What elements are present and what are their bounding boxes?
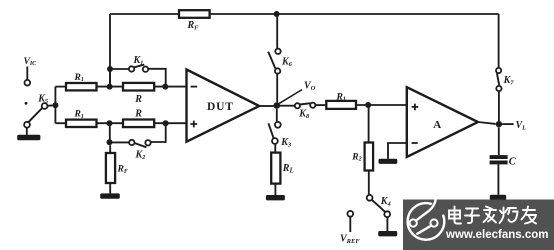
terminal VIC (open circle) bbox=[25, 80, 31, 86]
switch K7 bbox=[496, 68, 514, 91]
node Vo (DUT output) bbox=[274, 102, 281, 109]
wire bottom row between R1 and R bbox=[97, 122, 124, 124]
switch K4 bbox=[367, 195, 392, 217]
switch K1 bbox=[129, 55, 148, 72]
wire left vertical from top rail down to inverting input row bbox=[109, 14, 111, 87]
node top row / K1 branch bbox=[107, 84, 113, 90]
resistor Ri bbox=[326, 92, 356, 109]
wire RL to ground bbox=[274, 184, 276, 195]
wire A inverting input to ground bbox=[388, 143, 407, 159]
svg-text:C: C bbox=[509, 156, 517, 167]
terminal VREF bbox=[340, 211, 360, 245]
resistor RF (top feedback) bbox=[179, 10, 210, 31]
watermark chinese title (stylized strokes) bbox=[449, 207, 536, 224]
wire K3 to RL bbox=[274, 144, 276, 153]
wire DUT output bbox=[259, 105, 273, 107]
switch K6 bbox=[268, 49, 292, 74]
switch K2 bbox=[129, 140, 151, 161]
zi bbox=[465, 209, 479, 224]
wire K2 branch left horizontal bbox=[110, 141, 129, 143]
wire top row: bus to R1 bbox=[55, 86, 66, 88]
wire node VL down to capacitor bbox=[498, 127, 500, 155]
ground (below K4) bbox=[378, 231, 397, 236]
svg-text:www.elecfans.com: www.elecfans.com bbox=[445, 229, 548, 241]
wire A output bbox=[478, 122, 496, 124]
label VIC bbox=[24, 57, 38, 67]
switch K3 stub bbox=[276, 109, 278, 122]
svg-text:A: A bbox=[433, 119, 441, 131]
node junction top rail to K6 bbox=[274, 11, 280, 17]
you bbox=[522, 207, 537, 224]
wire K4 to ground bbox=[386, 217, 388, 231]
wire capacitor to ground bbox=[497, 164, 499, 194]
node bottom row / K2 branch bbox=[107, 120, 113, 126]
fa bbox=[484, 207, 497, 223]
node speck left of K5 bbox=[25, 102, 28, 105]
wire R2 branch vertical bbox=[368, 105, 370, 143]
wire top row to DUT inverting input bbox=[154, 86, 186, 88]
wire K2 branch right bbox=[151, 123, 166, 142]
ground (below RL) bbox=[266, 195, 285, 200]
wire RF to ground bbox=[109, 183, 111, 193]
ground (below C) bbox=[490, 195, 506, 200]
node K1 branch on left vertical bbox=[107, 66, 113, 72]
wire node to K8 bbox=[280, 105, 295, 107]
wire K2 branch left vertical bbox=[109, 123, 111, 142]
switch K5 bbox=[24, 93, 52, 127]
wire right vertical from top rail down to K7 bbox=[498, 14, 500, 68]
op-amp A bbox=[407, 87, 478, 157]
wire VIC terminal stub bbox=[26, 67, 28, 80]
label VL bbox=[516, 120, 527, 131]
svg-text:R: R bbox=[134, 94, 142, 105]
wire K1 branch right bbox=[148, 69, 165, 87]
resistor RL bbox=[271, 153, 294, 184]
wire R2 to K4 bbox=[368, 171, 370, 196]
resistor R1 (upper input) bbox=[66, 73, 97, 91]
switch K3 bbox=[268, 122, 291, 148]
node top row right bbox=[162, 84, 168, 90]
label Vo with pointer bbox=[279, 81, 316, 104]
resistor RF (lower left, vertical) bbox=[106, 145, 128, 183]
ground (A inverting input) bbox=[379, 159, 398, 164]
wire K5 to ground bbox=[26, 128, 28, 135]
watermark logo circle bbox=[408, 197, 445, 239]
wire K7 to node VL bbox=[498, 91, 500, 121]
wire K8 to Ri bbox=[315, 104, 326, 106]
node K2 / RF junction bbox=[107, 139, 113, 145]
wire stub from top rail down to K6 bbox=[276, 14, 278, 49]
ground (below K5) bbox=[17, 135, 40, 140]
wire K1 branch left horizontal bbox=[110, 68, 129, 70]
capacitor C bbox=[490, 155, 517, 167]
ground (below RF) bbox=[100, 193, 120, 198]
shao bbox=[500, 208, 518, 224]
svg-text:R: R bbox=[134, 109, 142, 120]
wire K1 branch vertical bbox=[109, 69, 111, 87]
resistor R (lower) bbox=[123, 109, 154, 128]
wire node to VL label bbox=[502, 123, 513, 125]
resistor R1 (lower input) bbox=[66, 110, 97, 127]
node bottom row right bbox=[163, 120, 169, 126]
op-amp DUT bbox=[187, 70, 260, 142]
resistor R (upper) bbox=[123, 83, 154, 105]
resistor R2 bbox=[351, 143, 373, 171]
node input bus junction with K5 bbox=[52, 102, 58, 108]
wire top row between R1 and R bbox=[97, 86, 124, 88]
wire top feedback rail bbox=[110, 13, 499, 15]
wire Ri to op-amp A non-inverting input bbox=[356, 104, 407, 106]
dian bbox=[449, 207, 461, 224]
wire bottom row: bus to R1 bbox=[55, 122, 66, 124]
wire input bus vertical bbox=[54, 87, 56, 124]
svg-text:DUT: DUT bbox=[207, 101, 234, 113]
watermark panel elecfans bbox=[403, 197, 554, 250]
wire bottom row to DUT non-inverting input bbox=[154, 122, 186, 124]
wire K6 to output node bbox=[276, 74, 278, 103]
switch K8 bbox=[295, 103, 316, 120]
node R2 junction bbox=[365, 102, 371, 108]
node VL bbox=[496, 121, 502, 127]
